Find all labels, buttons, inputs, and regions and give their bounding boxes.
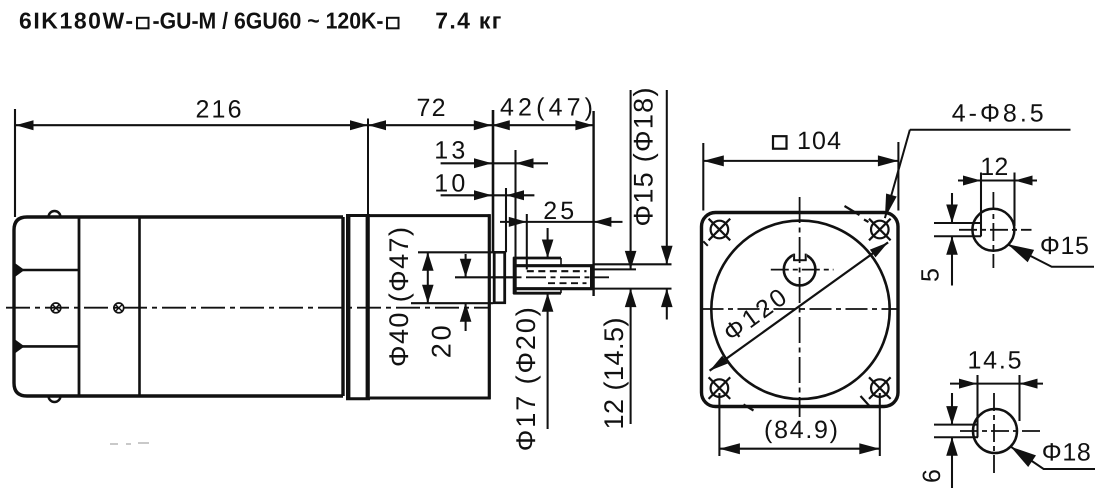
- bolt hole bottom-right: [869, 377, 891, 399]
- gearbox housing: [370, 214, 491, 399]
- text Phi15 (Phi18) rotated: [629, 88, 659, 227]
- svg-text:72: 72: [417, 94, 446, 122]
- svg-text:Φ15 (Φ18): Φ15 (Φ18): [629, 88, 659, 227]
- Phi20 variant top line: [513, 257, 561, 260]
- keyway notch: [793, 250, 807, 259]
- arrowheads of 72 dimension: [368, 120, 386, 130]
- dimension Phi17(Phi20): [547, 228, 549, 258]
- extension line shaft shoulder (x=515.5): [514, 150, 516, 257]
- screw head bump top: [49, 211, 61, 217]
- svg-text:216: 216: [196, 96, 242, 124]
- svg-text:Φ15: Φ15: [1040, 232, 1089, 260]
- body divider vertical (x=139.5): [138, 218, 141, 395]
- side view: top dimension line 216 / 72 / 42(47): [15, 124, 593, 126]
- screw on centerline 1: [51, 303, 61, 313]
- rear cover louver divider top (y=270): [15, 269, 79, 272]
- leader Phi15: [1008, 244, 1094, 266]
- dimension 20: [465, 254, 467, 277]
- shaft end extension stubs: [595, 263, 672, 265]
- svg-text:5: 5: [917, 268, 945, 282]
- dimension Phi120 diagonal: [710, 242, 889, 370]
- svg-text:-GU-M / 6GU60 ~ 120K-: -GU-M / 6GU60 ~ 120K-: [153, 8, 384, 34]
- svg-text:12: 12: [980, 153, 1008, 181]
- shaft end face: [590, 265, 593, 291]
- shaft bottom line: [516, 287, 592, 290]
- front view horizontal centerline: [702, 308, 898, 310]
- output shaft circle: [784, 254, 816, 286]
- title text: [19, 8, 501, 34]
- svg-text:Φ18: Φ18: [1042, 439, 1091, 467]
- bolt hole top-left: [709, 219, 731, 241]
- rear cover louver divider bottom (y=346.4): [15, 345, 79, 348]
- extension line shaft end (x=593.6): [592, 111, 594, 296]
- detail 2 centerlines: [993, 393, 995, 477]
- svg-text:4-Φ8.5: 4-Φ8.5: [952, 100, 1044, 128]
- lower hidden line (dashed): [548, 282, 587, 284]
- bolt hole top-right: [869, 219, 891, 241]
- dimension 12: [980, 173, 982, 237]
- watermark smudge: [110, 443, 149, 444]
- dimension Phi40(Phi47): [427, 252, 429, 303]
- svg-text:104: 104: [797, 127, 841, 155]
- keyway slot lines: [934, 222, 981, 224]
- step verticals at x=561: [560, 258, 562, 266]
- dimension (84.9): [718, 393, 720, 456]
- motor centerline: [6, 307, 491, 309]
- svg-text:12 (14.5): 12 (14.5): [599, 318, 629, 430]
- front view vertical centerline: [799, 197, 801, 417]
- text 12 (14.5) rotated: [599, 318, 629, 430]
- extension line key flat start (x=526.8): [526, 214, 528, 270]
- bolt hole bottom-left: [709, 377, 731, 399]
- bolt circle diagonal centerline dashes: [703, 206, 869, 411]
- output boss (pilot): [493, 252, 506, 304]
- detail 1 centerlines: [992, 192, 994, 268]
- shaft shoulder: [513, 257, 517, 294]
- shaft top line: [516, 264, 592, 267]
- Phi20 variant bottom line: [513, 292, 561, 295]
- circle Phi18: [973, 409, 1017, 453]
- svg-text:6: 6: [918, 469, 946, 483]
- arrowheads of 216 dimension: [16, 120, 594, 130]
- rear cover notch wedges: [14, 263, 24, 354]
- svg-text:6IK180W-: 6IK180W-: [19, 8, 133, 34]
- dimension square 104: [702, 143, 704, 211]
- svg-text:Φ40 (Φ47): Φ40 (Φ47): [384, 227, 414, 367]
- flange square: [702, 213, 899, 407]
- screw head bump bottom: [49, 396, 61, 402]
- dimension 5: [951, 193, 953, 223]
- rear cover divider vertical (x=79): [78, 218, 81, 395]
- dimension 6: [951, 393, 953, 425]
- motor body outline: [14, 217, 343, 396]
- extension line gearbox face (x=493): [492, 110, 495, 252]
- text square 104: [773, 136, 787, 149]
- dimension 13: [441, 162, 548, 164]
- shaft centerline: [492, 276, 609, 278]
- svg-text:14.5: 14.5: [968, 347, 1022, 375]
- keyway slot lines: [934, 424, 978, 426]
- svg-text:7.4 кг: 7.4 кг: [435, 8, 501, 34]
- motor body right edge: [341, 217, 344, 396]
- dimension 10: [441, 194, 535, 196]
- leader Phi18: [1011, 447, 1095, 469]
- arrowheads of 42(47) dimension: [492, 120, 510, 130]
- circle Phi15: [972, 209, 1014, 251]
- extension line left of motor (x=15): [14, 109, 16, 217]
- screw on centerline 2: [114, 303, 124, 313]
- motor flange plate: [346, 214, 370, 400]
- dimension 25: [500, 221, 623, 223]
- svg-text:(84.9): (84.9): [764, 416, 838, 444]
- extension line motor/gearbox joint (x=368): [367, 119, 369, 215]
- shaft circle horizontal centerline: [771, 269, 834, 271]
- dimension Phi15 / 12(14.5) vertical line: [630, 90, 632, 269]
- dimension 14.5: [976, 375, 978, 437]
- boss diameter extension lines: [418, 251, 493, 253]
- extension for 20: shaft axis line: [455, 276, 513, 278]
- keyway hidden line (dashed): [527, 270, 587, 272]
- gearbox circle Phi120 body: [711, 221, 889, 399]
- dimension Phi18 vertical line: [666, 90, 668, 264]
- extension line boss edge (x=506): [505, 188, 507, 252]
